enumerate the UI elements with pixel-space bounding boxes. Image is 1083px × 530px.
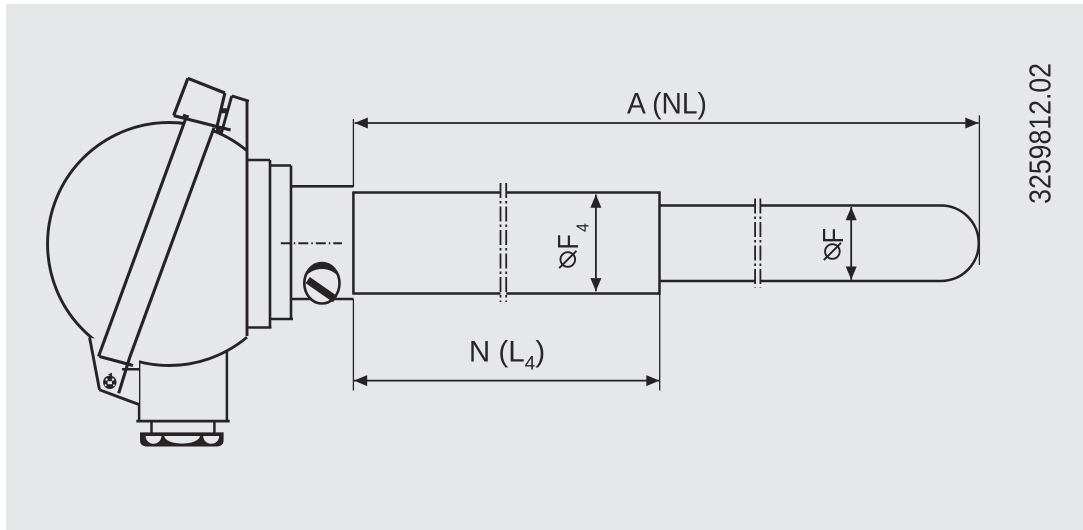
svg-text:F: F bbox=[816, 228, 849, 244]
svg-text:A (NL): A (NL) bbox=[627, 88, 707, 121]
svg-text:3259812.02: 3259812.02 bbox=[1024, 63, 1058, 204]
